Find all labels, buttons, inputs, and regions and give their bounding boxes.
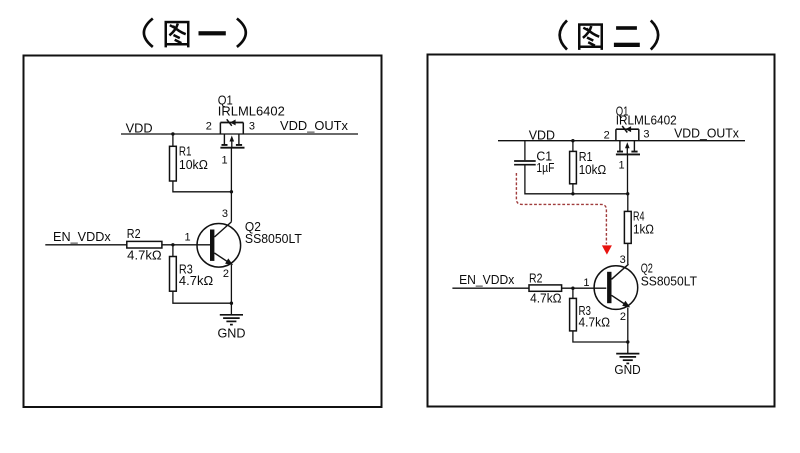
svg-text:VDD: VDD — [529, 129, 555, 143]
svg-text:Q2: Q2 — [641, 261, 653, 275]
svg-text:1: 1 — [222, 155, 228, 167]
svg-text:1: 1 — [583, 277, 589, 289]
svg-text:IRLML6402: IRLML6402 — [616, 113, 677, 127]
svg-text:2: 2 — [206, 121, 212, 133]
svg-text:3: 3 — [620, 254, 626, 266]
svg-text:SS8050LT: SS8050LT — [641, 274, 698, 288]
svg-text:3: 3 — [249, 120, 255, 132]
svg-text:4.7kΩ: 4.7kΩ — [127, 248, 162, 263]
svg-text:2: 2 — [620, 311, 626, 323]
svg-text:2: 2 — [223, 268, 229, 280]
svg-text:10kΩ: 10kΩ — [579, 163, 607, 177]
svg-text:1µF: 1µF — [536, 161, 554, 175]
svg-text:EN_VDDx: EN_VDDx — [459, 273, 515, 287]
svg-text:10kΩ: 10kΩ — [179, 157, 208, 172]
svg-text:VDD_OUTx: VDD_OUTx — [280, 118, 348, 133]
svg-text:1: 1 — [185, 232, 191, 244]
svg-text:4.7kΩ: 4.7kΩ — [179, 273, 214, 288]
svg-text:3: 3 — [643, 129, 649, 141]
svg-text:3: 3 — [222, 208, 228, 220]
svg-text:VDD: VDD — [126, 120, 153, 135]
svg-text:GND: GND — [614, 363, 640, 377]
svg-text:SS8050LT: SS8050LT — [245, 231, 302, 246]
svg-text:1kΩ: 1kΩ — [633, 222, 654, 236]
svg-text:R4: R4 — [633, 209, 645, 223]
svg-text:IRLML6402: IRLML6402 — [218, 104, 285, 119]
svg-text:EN_VDDx: EN_VDDx — [53, 229, 111, 244]
svg-text:GND: GND — [218, 325, 246, 340]
svg-text:R2: R2 — [127, 226, 141, 241]
svg-text:4.7kΩ: 4.7kΩ — [579, 316, 611, 330]
svg-text:R2: R2 — [529, 272, 542, 286]
svg-text:1: 1 — [619, 160, 625, 172]
svg-text:VDD_OUTx: VDD_OUTx — [674, 127, 740, 141]
svg-text:2: 2 — [604, 129, 610, 141]
svg-text:4.7kΩ: 4.7kΩ — [530, 292, 562, 306]
